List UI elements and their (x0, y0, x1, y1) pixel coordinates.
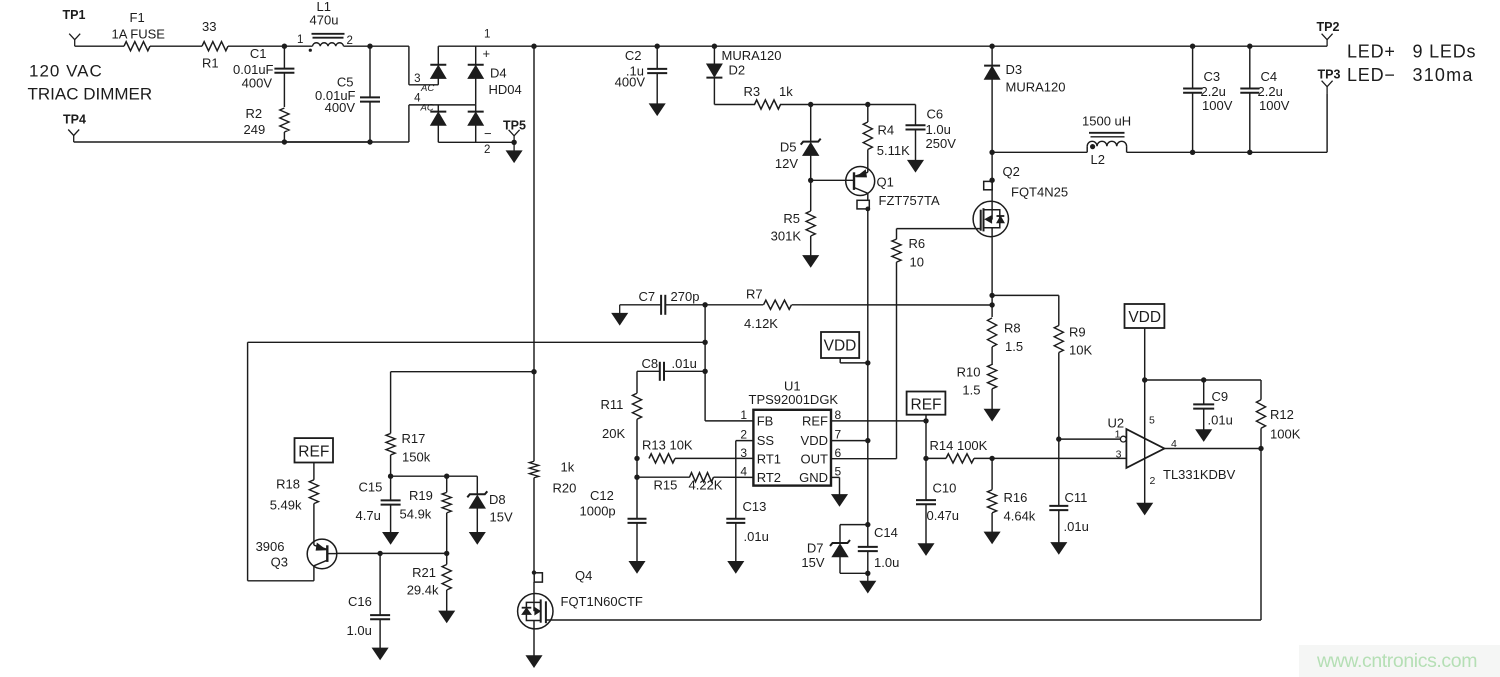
svg-text:270p: 270p (671, 289, 700, 304)
resistor R14 100K (923, 456, 928, 461)
svg-text:12V: 12V (775, 156, 798, 171)
svg-text:1k: 1k (779, 84, 793, 99)
svg-text:R20: R20 (553, 481, 577, 496)
svg-text:10: 10 (910, 255, 924, 270)
resistor R18 5.49k (313, 463, 315, 480)
svg-text:3906: 3906 (256, 539, 285, 554)
wire LED return rail (1127, 151, 1328, 153)
svg-text:15V: 15V (490, 510, 513, 525)
resistor R10 1.5 (988, 364, 997, 388)
svg-text:REF: REF (298, 444, 329, 461)
svg-text:29.4k: 29.4k (407, 583, 439, 598)
transistor Q3 3906 PNP (307, 539, 337, 569)
svg-text:.01u: .01u (1064, 519, 1089, 534)
bridge diode upper-left (437, 46, 439, 65)
wire VDD to U2 pin5 and gnd pin2 (1144, 328, 1146, 503)
svg-text:R11: R11 (601, 397, 624, 412)
svg-text:R21: R21 (412, 565, 436, 580)
capacitor C1 0.01uF 400V (282, 44, 287, 49)
svg-text:4.64k: 4.64k (1004, 509, 1036, 524)
svg-text:R17: R17 (402, 431, 426, 446)
svg-text:7: 7 (835, 428, 842, 442)
wire U1 REF pin8 to REF node (831, 420, 926, 422)
power symbol REF box left (295, 438, 334, 462)
svg-text:2.2u: 2.2u (1201, 84, 1226, 99)
bridge diode upper-right (475, 46, 477, 65)
svg-text:−: − (484, 126, 492, 141)
svg-text:MURA120: MURA120 (1006, 80, 1066, 95)
svg-text:54.9k: 54.9k (400, 507, 432, 522)
svg-text:FQT4N25: FQT4N25 (1011, 185, 1068, 200)
wire top rail bridge to TP2 (534, 45, 1327, 47)
svg-text:33: 33 (202, 19, 216, 34)
resistor R12 100K (1260, 380, 1262, 400)
resistor R5 301K (808, 178, 813, 183)
wire C1/R2 bottom to rail (284, 141, 370, 143)
svg-text:2.2u: 2.2u (1258, 84, 1283, 99)
svg-text:4: 4 (740, 465, 747, 479)
svg-text:C3: C3 (1204, 69, 1221, 84)
svg-text:3: 3 (1116, 448, 1122, 460)
svg-text:C6: C6 (927, 107, 944, 122)
svg-text:6: 6 (835, 446, 842, 460)
wire Q2 gate from R6 (897, 228, 981, 230)
resistor R11 20K (636, 371, 638, 393)
svg-text:F1: F1 (130, 10, 145, 25)
svg-text:TL331KDBV: TL331KDBV (1163, 467, 1236, 482)
svg-text:C7: C7 (639, 289, 656, 304)
power symbol VDD at pre-regulator (821, 332, 859, 358)
wire top rail to bridge AC3 (370, 45, 409, 47)
node TP2 test point (1322, 34, 1333, 40)
svg-text:TP2: TP2 (1317, 20, 1340, 34)
svg-text:100K: 100K (1270, 427, 1301, 442)
zener D8 15V (476, 476, 478, 494)
svg-text:www.cntronics.com: www.cntronics.com (1316, 650, 1477, 672)
svg-text:400V: 400V (242, 76, 273, 91)
svg-text:C15: C15 (359, 480, 383, 495)
svg-text:D4: D4 (490, 66, 507, 81)
resistor R19 54.9k (446, 476, 448, 492)
svg-text:C12: C12 (590, 488, 614, 503)
svg-text:TPS92001DGK: TPS92001DGK (749, 392, 839, 407)
svg-text:15V: 15V (801, 555, 824, 570)
svg-text:C16: C16 (348, 594, 372, 609)
svg-text:R9: R9 (1069, 325, 1086, 340)
capacitor C10 0.47u (925, 458, 927, 500)
svg-text:1.5: 1.5 (1005, 339, 1023, 354)
svg-text:4.12K: 4.12K (744, 316, 778, 331)
svg-text:R3: R3 (744, 84, 761, 99)
svg-text:C14: C14 (874, 525, 898, 540)
comparator U2 TL331KDBV (1126, 429, 1164, 468)
svg-text:R16: R16 (1004, 490, 1028, 505)
wire VDD pullup rail (1145, 379, 1261, 381)
svg-text:R5: R5 (783, 211, 800, 226)
transistor Q1 FZT757TA PNP (846, 167, 875, 196)
wire top rail input (75, 45, 124, 47)
capacitor C16 1.0u (379, 553, 381, 615)
svg-text:100V: 100V (1259, 98, 1290, 113)
svg-text:L2: L2 (1091, 152, 1105, 167)
svg-text:R2: R2 (246, 106, 263, 121)
wire U2 pin1 input (1059, 438, 1121, 440)
svg-text:FQT1N60CTF: FQT1N60CTF (561, 594, 643, 609)
svg-text:HD04: HD04 (489, 82, 522, 97)
wire divider node (391, 475, 478, 477)
capacitor C8 .01u (637, 370, 660, 372)
svg-text:LED−: LED− (1347, 65, 1396, 85)
wire Q2 source to sense resistors (991, 237, 993, 317)
svg-text:2: 2 (347, 35, 353, 47)
inductor L2 1500 uH (1086, 146, 1088, 152)
svg-text:R15: R15 (654, 478, 678, 493)
capacitor C6 1.0u 250V (906, 124, 926, 126)
capacitor C3 2.2u 100V (1190, 44, 1195, 49)
svg-text:C2: C2 (625, 48, 642, 63)
svg-text:1.0u: 1.0u (926, 122, 951, 137)
resistor R9 10K (1054, 326, 1063, 353)
zener D7 15V (865, 522, 870, 527)
wire Q1 collector VDD rail down (867, 209, 869, 525)
capacitor C2 .1u 400V (655, 44, 660, 49)
svg-text:LED+: LED+ (1347, 42, 1396, 62)
wire R17 branch from switch node (391, 371, 534, 373)
resistor R21 29.4k (446, 553, 448, 564)
wire bridge minus rail (438, 141, 514, 143)
bridge diode lower-left (437, 105, 439, 112)
svg-text:Q2: Q2 (1003, 164, 1020, 179)
svg-text:8: 8 (835, 408, 842, 422)
wire U1 GND pin5 to ground (831, 476, 840, 478)
svg-text:REF: REF (802, 413, 828, 428)
svg-text:.01u: .01u (1208, 413, 1233, 428)
svg-text:FZT757TA: FZT757TA (879, 193, 940, 208)
svg-text:1.5: 1.5 (962, 382, 980, 397)
wire U1 OUT pin6 to R6 (831, 458, 897, 460)
svg-text:SS: SS (757, 433, 775, 448)
wire FB to U1 pin1 (705, 420, 753, 422)
svg-text:1: 1 (740, 408, 747, 422)
node TP4 test point (68, 130, 79, 136)
svg-text:GND: GND (799, 470, 828, 485)
svg-text:FB: FB (757, 413, 774, 428)
svg-text:VDD: VDD (801, 433, 828, 448)
svg-text:1: 1 (297, 34, 303, 46)
svg-text:R7: R7 (746, 287, 763, 302)
svg-text:R13 10K: R13 10K (642, 438, 693, 453)
transistor Q4 FQT1N60CTF MOSFET (532, 570, 536, 574)
diode D3 MURA120 (989, 44, 994, 49)
svg-text:R1: R1 (202, 56, 219, 71)
svg-text:TP5: TP5 (503, 119, 526, 133)
svg-text:120 VAC: 120 VAC (29, 62, 103, 81)
svg-text:3: 3 (414, 73, 420, 85)
svg-text:250V: 250V (926, 136, 957, 151)
svg-text:.01u: .01u (744, 529, 769, 544)
wire main switch-node vertical (531, 44, 536, 49)
svg-text:REF: REF (911, 397, 942, 414)
svg-text:R10: R10 (957, 365, 981, 380)
resistor R7 4.12K (705, 304, 763, 306)
svg-text:20K: 20K (602, 426, 625, 441)
wire R9 branch (992, 294, 1059, 296)
svg-text:2: 2 (740, 428, 747, 442)
watermark background band (1299, 645, 1500, 677)
resistor R6 10 (896, 229, 898, 240)
resistor R16 4.64k (989, 456, 994, 461)
capacitor C11 .01u (1049, 505, 1068, 507)
svg-text:C11: C11 (1065, 490, 1088, 505)
capacitor C4 2.2u 100V (1247, 44, 1252, 49)
resistor R13 10K (634, 456, 639, 461)
svg-text:4.7u: 4.7u (356, 508, 381, 523)
svg-text:D3: D3 (1006, 62, 1023, 77)
svg-text:AC: AC (420, 83, 434, 94)
svg-text:D2: D2 (729, 63, 746, 78)
svg-text:D5: D5 (780, 140, 797, 155)
wire dim-detect loop to FB (248, 341, 705, 343)
svg-text:R8: R8 (1004, 321, 1021, 336)
svg-text:R12: R12 (1270, 407, 1294, 422)
svg-text:9 LEDs: 9 LEDs (1413, 42, 1477, 62)
svg-text:D7: D7 (807, 541, 824, 556)
resistor R17 150k (386, 433, 395, 455)
svg-text:R19: R19 (409, 488, 433, 503)
svg-text:R14 100K: R14 100K (930, 438, 988, 453)
svg-text:RT2: RT2 (757, 470, 781, 485)
wire FB node vertical (704, 305, 706, 421)
svg-text:OUT: OUT (801, 451, 829, 466)
bridge diode lower-right (475, 105, 477, 112)
svg-text:470u: 470u (310, 13, 339, 28)
svg-text:TP4: TP4 (63, 113, 86, 127)
svg-text:5: 5 (1149, 415, 1155, 427)
IC U1 TPS92001DGK (753, 410, 831, 486)
svg-text:C8: C8 (642, 356, 659, 371)
svg-text:TP3: TP3 (1318, 68, 1341, 82)
zener D5 12V (810, 105, 812, 142)
svg-text:100V: 100V (1202, 98, 1233, 113)
power symbol VDD at comparator (1125, 304, 1165, 328)
svg-text:MURA120: MURA120 (722, 48, 782, 63)
wire bottom input rail (74, 141, 409, 143)
svg-text:+: + (483, 46, 491, 61)
transistor Q2 FQT4N25 MOSFET (989, 178, 994, 183)
svg-text:C13: C13 (743, 499, 767, 514)
resistor R8 1.5 (988, 318, 997, 347)
capacitor C12 1000p (636, 477, 638, 519)
svg-text:R6: R6 (909, 236, 926, 251)
svg-text:1.0u: 1.0u (347, 623, 372, 638)
resistor R1 33 (202, 42, 228, 51)
svg-text:2: 2 (1150, 475, 1156, 487)
svg-text:1: 1 (484, 29, 490, 41)
svg-text:5: 5 (835, 465, 842, 479)
wire R3 node to R4 and C6 (808, 102, 813, 107)
resistor R20 1k (529, 461, 538, 478)
wire bottom rail to bridge AC4 (408, 105, 410, 142)
svg-text:1A FUSE: 1A FUSE (112, 27, 166, 42)
svg-text:R4: R4 (878, 123, 895, 138)
svg-text:C4: C4 (1261, 69, 1278, 84)
svg-text:5.11K: 5.11K (877, 143, 910, 158)
svg-text:1000p: 1000p (580, 504, 616, 519)
svg-text:400V: 400V (615, 75, 646, 90)
svg-text:VDD: VDD (824, 338, 857, 355)
svg-text:249: 249 (244, 122, 266, 137)
wire bridge plus to top rail (438, 45, 534, 47)
wire U2 output to R12 and Q4 gate (1164, 448, 1261, 450)
svg-text:VDD: VDD (1128, 309, 1161, 326)
capacitor C5 0.01uF 400V (367, 44, 372, 49)
svg-text:Q3: Q3 (271, 555, 288, 570)
capacitor C7 270p with ground (620, 304, 661, 306)
svg-text:C1: C1 (250, 46, 267, 61)
wire switch node to L2 (992, 151, 1087, 153)
wire U1 SS to C13 (736, 440, 754, 442)
svg-text:0.47u: 0.47u (927, 508, 960, 523)
svg-text:C10: C10 (933, 481, 957, 496)
svg-text:4.22K: 4.22K (689, 478, 723, 493)
svg-text:1.0u: 1.0u (874, 555, 899, 570)
resistor R4 5.11K (867, 105, 869, 123)
svg-text:TRIAC DIMMER: TRIAC DIMMER (28, 85, 153, 104)
svg-text:TP1: TP1 (63, 8, 86, 22)
svg-text:2: 2 (484, 144, 490, 156)
svg-text:Q4: Q4 (575, 568, 592, 583)
svg-text:301K: 301K (771, 229, 802, 244)
svg-text:1k: 1k (561, 460, 575, 475)
svg-text:5.49k: 5.49k (270, 498, 302, 513)
svg-text:150k: 150k (402, 450, 431, 465)
capacitor C15 4.7u (390, 476, 392, 500)
Q1 package tab (857, 200, 869, 209)
resistor R3 1k (714, 104, 755, 106)
svg-text:D8: D8 (489, 492, 506, 507)
svg-text:400V: 400V (325, 100, 356, 115)
wire Q3 base node (337, 552, 447, 554)
node TP1 test point (69, 34, 80, 40)
wire U1 VDD pin7 to VDD rail (831, 440, 868, 442)
resistor R2 249 (280, 108, 289, 132)
capacitor C9 .01u (1201, 377, 1206, 382)
svg-text:Q1: Q1 (877, 175, 894, 190)
svg-text:C9: C9 (1212, 389, 1229, 404)
svg-text:.01u: .01u (672, 356, 697, 371)
capacitor C14 1.0u (867, 525, 869, 547)
power symbol REF node box (907, 392, 946, 415)
diode D2 MURA120 (712, 44, 717, 49)
svg-text:3: 3 (740, 446, 747, 460)
wire R9 bottom to U2 pin1 and C11 (1056, 436, 1061, 441)
capacitor C13 .01u (726, 518, 745, 520)
svg-text:10K: 10K (1069, 343, 1092, 358)
svg-text:RT1: RT1 (757, 451, 781, 466)
svg-text:310ma: 310ma (1413, 65, 1474, 85)
resistor R15 4.22K (634, 475, 639, 480)
svg-text:R18: R18 (276, 477, 300, 492)
inductor L1 470u (284, 45, 312, 47)
svg-text:1500 uH: 1500 uH (1082, 114, 1131, 129)
fuse F1 (124, 42, 150, 51)
